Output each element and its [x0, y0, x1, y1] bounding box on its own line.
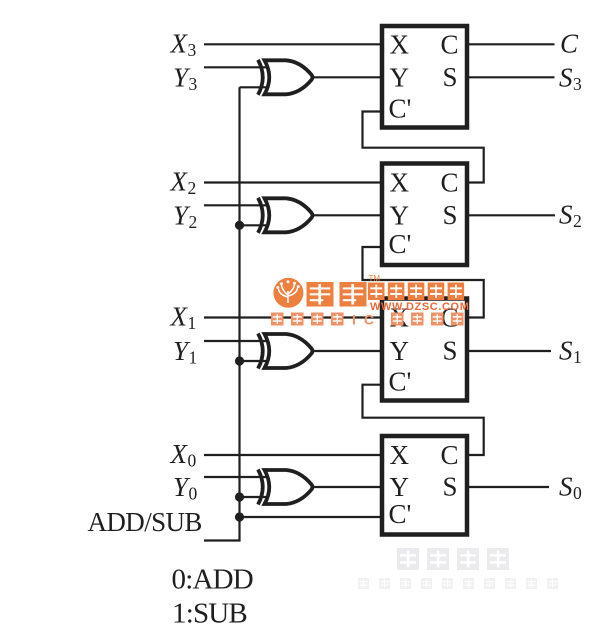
svg-text:1:SUB: 1:SUB	[172, 598, 247, 630]
svg-text:X: X	[390, 168, 410, 198]
XOR gate G1	[258, 60, 313, 95]
wire Y1 input to XOR G3	[204, 340, 267, 342]
wire X3 input	[204, 43, 385, 45]
wire X2 input	[204, 181, 385, 183]
svg-text:S: S	[443, 200, 458, 230]
svg-text:S: S	[443, 62, 458, 92]
svg-text:C: C	[441, 168, 459, 198]
svg-text:WWW.DZSC.COM: WWW.DZSC.COM	[370, 301, 469, 313]
node junction dot stage3	[235, 356, 244, 365]
svg-text:X: X	[390, 29, 410, 59]
svg-text:TM: TM	[369, 274, 381, 283]
wire carry U2 C' from U3 C	[363, 247, 484, 318]
watermark text 电子市场网 (vector approximation)	[368, 283, 464, 301]
node junction dot stage4 XOR branch	[235, 492, 244, 501]
watermark ghost remnant bottom right	[397, 548, 509, 570]
wire X0 input	[204, 454, 385, 456]
watermark slogan 全球最大IC采购网站 (vector approximation)	[271, 312, 464, 328]
wire sum output S0	[467, 486, 549, 488]
wire carry U3 C' from U4 C	[363, 385, 484, 455]
wire ADD/SUB control vertical bus	[204, 87, 240, 540]
node junction dot ADD/SUB to C' branch	[235, 512, 244, 521]
wire carry output C	[467, 43, 555, 45]
svg-text:0:ADD: 0:ADD	[172, 564, 253, 596]
svg-text:C: C	[441, 29, 459, 59]
wire XOR G4 lower input from ADD/SUB line	[240, 496, 267, 498]
svg-text:C': C'	[389, 499, 412, 529]
wire ADD/SUB to U4 pin C'	[240, 516, 386, 518]
wire sum output S1	[467, 350, 551, 352]
wire sum output S3	[467, 76, 555, 78]
svg-text:S: S	[443, 336, 458, 366]
full adder U4	[382, 436, 467, 535]
wire Y2 input to XOR G2	[204, 204, 267, 206]
wire XOR G4 output to U4 pin Y	[312, 486, 385, 488]
wire XOR G1 output to U1 pin Y	[312, 76, 385, 78]
node junction dot stage2	[235, 221, 244, 230]
full adder U2	[382, 164, 467, 266]
wire XOR G2 lower input from ADD/SUB line	[240, 224, 267, 226]
svg-text:X: X	[390, 440, 410, 470]
svg-text:C: C	[441, 440, 459, 470]
wire carry U1 C' from U2 C	[363, 112, 484, 183]
svg-text:C': C'	[389, 229, 412, 259]
full adder U1	[382, 26, 467, 128]
wire XOR G2 output to U2 pin Y	[312, 214, 385, 216]
svg-text:S: S	[443, 472, 458, 502]
svg-text:Y: Y	[390, 472, 410, 502]
watermark logo circle	[273, 278, 303, 308]
XOR gate G2	[258, 198, 313, 233]
svg-text:IC: IC	[352, 312, 382, 328]
watermark text 维库 (vector approximation)	[307, 282, 367, 307]
svg-text:Y: Y	[390, 336, 410, 366]
wire XOR G3 lower input from ADD/SUB line	[240, 360, 267, 362]
svg-text:Y: Y	[390, 62, 410, 92]
wire X1 input	[204, 316, 385, 318]
XOR gate G3	[258, 334, 313, 369]
svg-text:C': C'	[389, 94, 412, 124]
svg-text:Y: Y	[390, 200, 410, 230]
wire XOR G1 lower input from ADD/SUB line	[240, 86, 267, 88]
wire Y3 input to XOR G1	[204, 66, 267, 68]
full adder U3	[382, 299, 467, 401]
XOR gate G4	[258, 470, 313, 505]
svg-text:ADD/SUB: ADD/SUB	[88, 507, 202, 537]
svg-text:C': C'	[389, 367, 412, 397]
wire sum output S2	[467, 214, 555, 216]
svg-text:C: C	[560, 28, 579, 58]
wire Y0 input to XOR G4	[204, 476, 267, 478]
wire XOR G3 output to U3 pin Y	[312, 350, 385, 352]
